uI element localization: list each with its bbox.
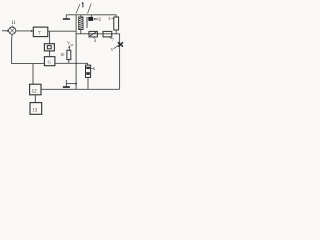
label 1: [82, 2, 83, 7]
block 12: [30, 84, 41, 95]
label Vref: [67, 41, 73, 47]
leader 1: [76, 4, 80, 13]
wire input left: [2, 30, 9, 32]
svg-text:11: 11: [11, 21, 16, 26]
ground top left: [63, 15, 70, 20]
armature 2: [88, 15, 93, 21]
summing junction 11: [9, 25, 16, 34]
wire drop to block 12: [32, 63, 34, 84]
wire feedback left vertical: [12, 34, 45, 63]
block 8: [44, 57, 55, 66]
wire drop to block 9: [49, 31, 51, 44]
block 7: [33, 27, 48, 36]
wire block12 to block13: [34, 95, 36, 103]
relay armature bar: [86, 17, 88, 28]
wire block9 to block8: [49, 51, 51, 57]
wire block7 output: [48, 30, 76, 32]
svg-text:3: 3: [108, 16, 110, 21]
cylinder 4b: [103, 31, 112, 37]
svg-text:4: 4: [94, 38, 97, 43]
label 7 lower: [110, 37, 114, 42]
label 4: [93, 37, 96, 43]
block 9: [44, 44, 54, 51]
svg-text:2: 2: [99, 18, 102, 23]
wire top rail: [66, 14, 116, 16]
svg-text:13: 13: [32, 108, 38, 113]
svg-text:ref: ref: [70, 44, 73, 47]
label 2: [93, 18, 101, 23]
nozzle 5: [118, 42, 123, 46]
svg-text:G: G: [48, 60, 52, 65]
block 13: [30, 103, 42, 115]
ground bottom: [63, 80, 77, 88]
svg-text:6: 6: [93, 66, 95, 71]
label 6: [91, 66, 95, 71]
svg-text:12: 12: [32, 90, 37, 95]
arrow Vref: [68, 45, 70, 50]
wire resistor10 bottom: [68, 60, 70, 64]
wire long vertical bus: [75, 15, 77, 90]
damper 6: [86, 65, 91, 89]
svg-text:7: 7: [112, 38, 114, 42]
svg-text:5: 5: [111, 47, 114, 52]
wire block8 output net: [55, 63, 88, 65]
wire bottom rail: [41, 88, 120, 90]
svg-text:7: 7: [38, 30, 41, 36]
block 3: [114, 15, 119, 34]
wire mid right rail and right vertical: [76, 34, 120, 90]
wire junction to block 7: [16, 30, 33, 32]
svg-text:10: 10: [60, 52, 64, 57]
leader 2 upper: [88, 4, 92, 14]
label 5: [111, 46, 118, 52]
solenoid coil 1: [79, 15, 83, 34]
resistor 10: [67, 50, 71, 59]
cylinder 4a: [89, 31, 97, 37]
